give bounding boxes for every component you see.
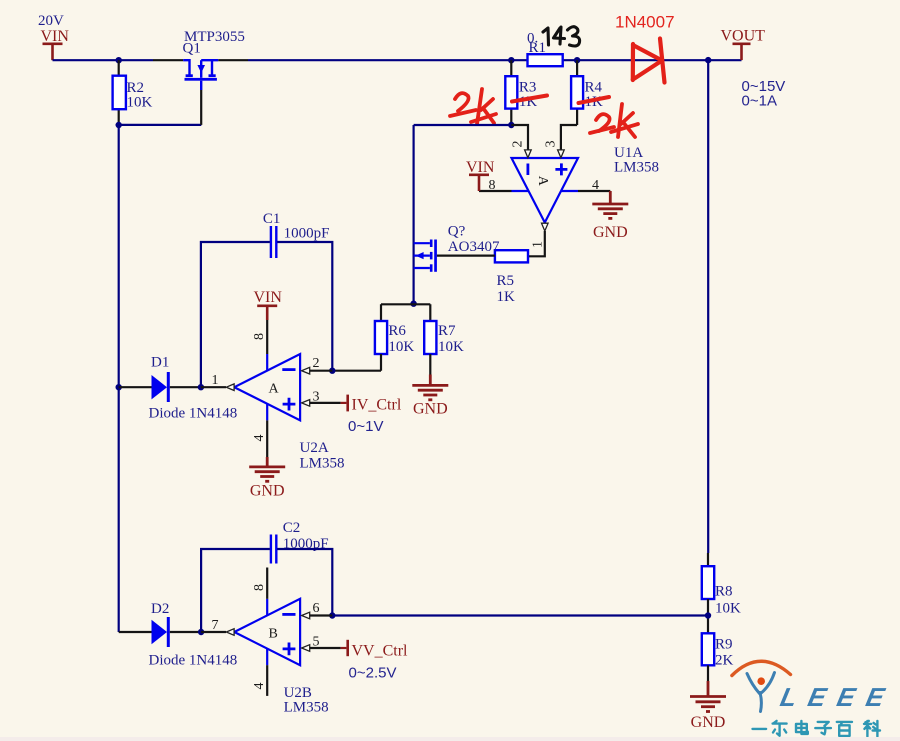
- resistor R4: [571, 76, 583, 108]
- svg-text:C1: C1: [263, 211, 281, 227]
- svg-text:10K: 10K: [127, 95, 153, 111]
- logo text LEEE: [778, 682, 890, 712]
- wire C2 left: [201, 549, 270, 632]
- svg-text:8: 8: [252, 333, 267, 340]
- logo orange dot: [757, 677, 765, 685]
- svg-text:8: 8: [252, 584, 267, 591]
- logo chinese text: [753, 721, 881, 737]
- red strikethrough R4 value: [579, 97, 610, 103]
- svg-text:VV_Ctrl: VV_Ctrl: [352, 643, 409, 660]
- svg-text:2: 2: [511, 141, 526, 148]
- node Q drain R6 R7 junction: [410, 301, 416, 307]
- wire R5 to Q gate: [437, 255, 495, 257]
- svg-text:VOUT: VOUT: [721, 28, 766, 45]
- wire U1A pin3 jog: [561, 125, 577, 150]
- wire U2B pin7: [201, 631, 226, 633]
- svg-text:10K: 10K: [715, 601, 741, 617]
- power port VIN U2A: [257, 306, 277, 320]
- ground GND U1A: [592, 191, 628, 218]
- svg-text:10K: 10K: [438, 339, 464, 355]
- svg-text:LEEE: LEEE: [778, 682, 890, 712]
- svg-text:4: 4: [252, 435, 267, 442]
- wire U1A pin4: [578, 190, 610, 192]
- power port VIN U1A: [469, 175, 489, 191]
- svg-text:GND: GND: [413, 401, 448, 418]
- wire U1A pin2 jog: [511, 125, 528, 150]
- diode D1: [152, 375, 168, 399]
- resistor R2: [113, 76, 126, 110]
- handwritten 143: [543, 27, 580, 46]
- capacitor C2: [271, 535, 276, 564]
- wire VOUT column to R8: [707, 60, 709, 553]
- svg-text:20V: 20V: [38, 13, 64, 29]
- wire R8 bottom / R9 top: [707, 599, 709, 633]
- svg-text:Q1: Q1: [183, 41, 201, 57]
- power port VOUT: [733, 44, 751, 60]
- svg-text:LM358: LM358: [614, 160, 659, 176]
- svg-text:R6: R6: [388, 323, 406, 339]
- svg-text:1K: 1K: [497, 289, 516, 305]
- wire left bus: [118, 125, 120, 632]
- op-amp U2A: [212, 333, 345, 472]
- wire R3 pins: [510, 60, 512, 125]
- capacitor C1: [271, 226, 276, 258]
- wire U2A pin4 column: [266, 420, 268, 457]
- svg-text:R9: R9: [715, 637, 733, 653]
- wire U2A pin1: [201, 386, 226, 388]
- wire C1 left: [201, 242, 270, 387]
- svg-text:6: 6: [313, 601, 320, 616]
- wire C2 right: [277, 549, 332, 616]
- svg-text:GND: GND: [593, 224, 628, 241]
- wire D2 cathode: [170, 631, 201, 633]
- svg-text:LM358: LM358: [300, 456, 345, 472]
- wire top rail left: [53, 59, 154, 61]
- svg-text:10K: 10K: [388, 339, 414, 355]
- wire R2 to Q1 source row: [119, 124, 202, 126]
- svg-text:U2A: U2A: [300, 440, 329, 456]
- svg-text:7: 7: [212, 618, 219, 633]
- wire R2 pins: [118, 60, 120, 125]
- op-amp U2B: [212, 584, 329, 716]
- svg-text:C2: C2: [283, 520, 301, 536]
- resistor R3: [505, 76, 517, 108]
- svg-text:0~1V: 0~1V: [348, 418, 383, 435]
- wire U2B pin6 stub: [310, 614, 333, 616]
- resistor R5: [495, 250, 528, 262]
- svg-text:B: B: [269, 627, 278, 642]
- red strikethrough R3 value: [512, 96, 547, 102]
- svg-text:VIN: VIN: [466, 159, 495, 176]
- wire R3-bottom row to Q column: [414, 124, 512, 126]
- svg-text:2K: 2K: [715, 653, 734, 669]
- handwritten 2k left: [450, 89, 496, 124]
- svg-text:1N4007: 1N4007: [615, 13, 675, 32]
- svg-text:Diode 1N4148: Diode 1N4148: [149, 406, 238, 422]
- wire pin6 row to R8: [332, 614, 708, 616]
- op-amp U1A: [489, 141, 660, 249]
- port VV_Ctrl: [341, 647, 347, 649]
- diode sketch 1N4007 red: [633, 39, 665, 83]
- node R3 top: [508, 57, 514, 63]
- wire U1A pin8: [479, 190, 512, 192]
- wire D1 cathode: [170, 386, 201, 388]
- wire Q column: [413, 125, 415, 304]
- wire Q1 source pin: [218, 59, 248, 61]
- wire top rail right: [248, 59, 742, 61]
- ground GND U2A: [249, 457, 285, 481]
- wire U2B pin8 column: [266, 568, 268, 599]
- svg-text:IV_Ctrl: IV_Ctrl: [352, 397, 402, 414]
- logo arc: [732, 661, 791, 675]
- node R2 bottom: [116, 122, 122, 128]
- svg-text:1: 1: [531, 241, 546, 248]
- svg-text:1000pF: 1000pF: [284, 226, 330, 242]
- svg-text:VIN: VIN: [254, 289, 283, 306]
- resistor R1: [528, 54, 563, 66]
- svg-text:A: A: [269, 382, 280, 397]
- svg-text:Q?: Q?: [448, 224, 466, 240]
- wire U1A pin1 to R5: [528, 231, 545, 256]
- svg-text:AO3407: AO3407: [448, 239, 500, 255]
- svg-text:Diode 1N4148: Diode 1N4148: [149, 653, 238, 669]
- ground GND R7: [412, 375, 448, 400]
- transistor Q1 MTP3055: [183, 60, 218, 90]
- svg-text:D2: D2: [151, 601, 169, 617]
- wire R6 R7 top row: [381, 304, 430, 321]
- diode D2: [152, 620, 168, 644]
- port IV_Ctrl: [341, 402, 347, 404]
- handwritten 2k right: [590, 104, 638, 137]
- svg-text:VIN: VIN: [41, 28, 70, 45]
- svg-text:2: 2: [313, 356, 320, 371]
- wire U2B pin5: [310, 647, 341, 649]
- wire Q1 bottom pin: [200, 90, 202, 125]
- wire U2A pin3: [310, 402, 341, 404]
- wire R9 bottom: [707, 665, 709, 681]
- node bus/D1: [116, 384, 122, 390]
- node U2B pin6 junction: [329, 612, 335, 618]
- svg-text:R5: R5: [497, 273, 515, 289]
- node R8/R9 junction: [705, 612, 711, 618]
- ground GND R9: [690, 681, 726, 712]
- svg-text:GND: GND: [691, 714, 726, 731]
- logo Y figure: [747, 673, 775, 712]
- wire R8 top pin: [707, 553, 709, 566]
- wire R4 pins: [576, 60, 578, 125]
- power port VIN top-left: [43, 44, 63, 60]
- svg-text:D1: D1: [151, 355, 169, 371]
- svg-text:3: 3: [544, 141, 559, 148]
- wire R6 bottom: [332, 354, 381, 371]
- wire D2 anode: [119, 631, 152, 633]
- svg-text:0.: 0.: [527, 31, 538, 47]
- wire U2A pin8 column: [266, 320, 268, 354]
- svg-text:LM358: LM358: [284, 700, 329, 716]
- bottom strip: [0, 737, 900, 741]
- wire Q1 drain pin: [153, 59, 183, 61]
- resistor R8: [702, 566, 714, 599]
- node R3 bottom junction: [508, 122, 514, 128]
- resistor R6: [375, 321, 387, 354]
- resistor R9: [702, 633, 714, 665]
- svg-text:1: 1: [212, 373, 219, 388]
- svg-text:A: A: [535, 176, 550, 187]
- node D2/U2B: [198, 629, 204, 635]
- wire C1 right: [277, 242, 332, 371]
- svg-text:0~2.5V: 0~2.5V: [349, 665, 397, 682]
- wire R7 bottom: [429, 354, 431, 375]
- node VOUT junction: [705, 57, 711, 63]
- node D1/U2A: [198, 384, 204, 390]
- node U2A pin2 junction: [329, 368, 335, 374]
- resistor R7: [424, 321, 436, 354]
- node VIN/R2: [116, 57, 122, 63]
- wire U2A pin2 stub: [310, 370, 333, 372]
- wire U2B pin4 column: [266, 665, 268, 696]
- svg-text:R8: R8: [715, 584, 733, 600]
- svg-text:0~1A: 0~1A: [742, 93, 777, 110]
- svg-text:4: 4: [252, 683, 267, 690]
- wire D1 anode: [119, 386, 152, 388]
- node R4 top: [574, 57, 580, 63]
- svg-text:R7: R7: [438, 323, 456, 339]
- svg-text:GND: GND: [250, 483, 285, 500]
- transistor Q? AO3407: [414, 224, 500, 272]
